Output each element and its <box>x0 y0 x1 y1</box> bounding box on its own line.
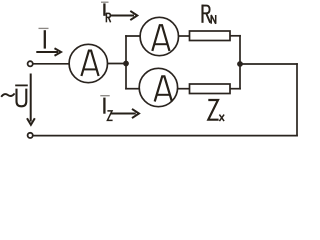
wire: top ammeter to resistor RN <box>178 35 189 37</box>
node: right junction dot <box>237 61 243 67</box>
ammeter A1 (main) <box>69 44 107 82</box>
wire: right vertical branch merge <box>239 36 241 89</box>
label ~U (source) : tilde <box>1 93 14 96</box>
label RN : letter R <box>202 5 216 24</box>
arrow for U (downward) <box>27 74 35 125</box>
wire: resistor RN to right vertical <box>230 35 240 37</box>
wire: bottom branch left segment <box>126 88 140 90</box>
arrow for IZ <box>111 109 140 118</box>
wire: ZX to right vertical <box>230 88 240 90</box>
wire: left vertical branch split <box>125 36 127 89</box>
label I (input current) : overbar <box>39 27 49 29</box>
label RN : subscript N <box>211 15 216 24</box>
terminal: bottom input <box>28 133 33 138</box>
resistor RN body <box>190 31 231 41</box>
wire: right junction to right edge <box>240 63 297 65</box>
wire: bottom rail <box>33 135 297 137</box>
wire: top branch left segment <box>126 35 141 37</box>
wire: main ammeter to left junction <box>108 63 127 65</box>
ammeter A2 (top branch) <box>140 17 178 55</box>
label IR : stem <box>103 3 105 15</box>
label ZX : letter Z <box>208 100 224 121</box>
label U : letter U <box>17 89 27 107</box>
wire: top terminal to main ammeter <box>33 63 70 65</box>
ammeter A3 (bottom branch) <box>139 68 177 106</box>
terminal: top input <box>28 61 33 66</box>
node: left junction dot <box>123 61 129 67</box>
wire: right edge vertical <box>296 64 298 136</box>
label IZ : stem <box>103 98 105 114</box>
label ZX : subscript x <box>219 115 224 122</box>
label IR : subscript R <box>106 13 111 22</box>
label U : overbar <box>15 84 28 86</box>
arrow for IR <box>110 11 138 20</box>
impedance ZX body <box>190 84 231 94</box>
arrow for I <box>36 48 61 55</box>
label IZ (bottom branch current) : overbar <box>100 95 109 97</box>
label I : stem <box>44 30 46 48</box>
label IR (top branch current) : overbar <box>101 1 109 3</box>
label IZ : subscript Z <box>107 111 112 121</box>
wire: bottom ammeter to ZX <box>178 88 190 90</box>
